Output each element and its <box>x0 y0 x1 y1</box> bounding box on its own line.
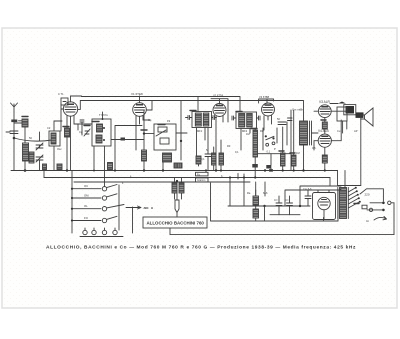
power transformer T5 <box>340 188 347 219</box>
value mark det <box>251 128 257 130</box>
svg-text:OL: OL <box>84 204 88 208</box>
svg-text:C2: C2 <box>47 126 51 130</box>
coil L4 <box>29 152 34 163</box>
switch bottom contacts <box>83 230 87 234</box>
wire T2 down <box>241 129 250 151</box>
capacitor T1 right <box>212 116 217 120</box>
node bus dots <box>66 169 68 171</box>
switch row 1 <box>72 188 101 190</box>
label marks <box>145 207 148 209</box>
svg-text:Cg: Cg <box>79 130 83 134</box>
capacitor C10 <box>276 196 282 215</box>
tube V4 6TA6 <box>262 103 275 116</box>
wire T1 top feed <box>197 97 199 112</box>
capacitor C14 <box>121 138 126 141</box>
mains wire 2 <box>367 209 382 211</box>
svg-text:AP: AP <box>354 129 358 133</box>
svg-text:6+6: 6+6 <box>263 191 268 195</box>
model label box <box>143 217 207 228</box>
wire T3 <box>304 101 319 171</box>
capacitor Ca <box>6 131 18 134</box>
wire bottom rail <box>170 228 394 235</box>
wire V2 pins <box>136 116 150 150</box>
fuse F1 <box>362 205 367 209</box>
tube V3 6TA7 <box>213 104 226 117</box>
wire osc verticals <box>144 101 187 171</box>
dial lamp LP <box>175 200 179 213</box>
wire pot verticals <box>263 128 277 171</box>
mains switch <box>374 217 387 221</box>
divider resistor R15 <box>253 196 259 205</box>
wire L5 down to bus <box>53 146 55 171</box>
resistor R4 <box>174 163 182 168</box>
wire box bottom to switch <box>104 146 106 187</box>
wire V1 plate up <box>61 104 64 131</box>
resistor R14 below bus <box>179 183 184 193</box>
node L6b tap <box>103 139 105 141</box>
oscillator coil box L5 <box>49 131 60 146</box>
resistor R7 <box>219 153 224 165</box>
value mark Rk <box>321 119 326 121</box>
tube V2 6D6 <box>133 103 147 117</box>
mains terminal 1 <box>388 201 391 204</box>
variable capacitor CV2 <box>36 155 43 162</box>
capacitor C2 <box>78 120 84 135</box>
capacitor C13 <box>205 154 211 171</box>
core lines T3 <box>310 121 312 145</box>
svg-text:Ra: Ra <box>247 191 251 195</box>
mains wire 1 <box>370 202 382 204</box>
speaker SP <box>365 108 374 126</box>
wire mid bottom h2 <box>211 183 339 221</box>
node osc <box>143 132 145 134</box>
capacitor Cb3 on bus <box>108 163 113 170</box>
switch arrow to a <box>126 206 141 209</box>
wire top rail 1 <box>70 96 72 102</box>
bus 2 <box>44 177 330 179</box>
wire grid tube2 <box>147 109 153 111</box>
transformer taps <box>348 188 360 209</box>
svg-text:Cp: Cp <box>148 118 152 122</box>
value mark L6 <box>92 121 99 123</box>
svg-text:T M Po: T M Po <box>99 113 108 117</box>
svg-text:0,1: 0,1 <box>201 157 205 161</box>
phono input box 2 <box>196 178 209 182</box>
resistor R18 osc grid <box>142 150 147 161</box>
svg-text:V1 6TE8: V1 6TE8 <box>131 92 143 96</box>
svg-text:MF2: MF2 <box>242 129 248 133</box>
rectifier tube V7 <box>318 197 330 209</box>
value mark padder <box>158 124 165 126</box>
resistor R13 below bus <box>172 183 177 193</box>
value mark R1 <box>63 126 69 128</box>
svg-text:Gramm: Gramm <box>197 179 205 182</box>
tube V1 6A7 <box>63 102 77 116</box>
wire top rail 2 <box>78 101 304 111</box>
value mark T2 <box>236 111 242 113</box>
svg-text:0,5: 0,5 <box>312 146 316 150</box>
tube V6 output <box>318 134 331 147</box>
antenna A <box>11 103 18 112</box>
wire grid cap V1 <box>71 96 241 112</box>
output coupling box <box>337 107 347 121</box>
node antenna junction <box>13 137 16 140</box>
wire L3 down <box>24 161 26 171</box>
svg-text:V3 ALR: V3 ALR <box>319 100 331 104</box>
svg-text:V3 6TB8: V3 6TB8 <box>259 95 270 99</box>
wire to C1 <box>14 122 22 124</box>
arrow plate top <box>338 102 346 104</box>
value mark osc <box>141 129 147 131</box>
resistor R6 <box>212 153 217 165</box>
wire antenna to coils <box>14 138 52 141</box>
value mark R9 <box>279 150 284 152</box>
wire coilbox down <box>93 146 95 171</box>
voice coil <box>356 112 364 118</box>
svg-text:C T1: C T1 <box>58 92 64 96</box>
resistor R10 <box>292 155 297 166</box>
wire V6 <box>314 120 341 155</box>
ground bus main <box>11 170 338 172</box>
wire switch bottom <box>80 236 123 238</box>
output transformer T4 <box>344 105 356 115</box>
svg-text:0,1: 0,1 <box>235 150 239 154</box>
svg-text:ALLOCCHIO, BACCHINI e Co — M: ALLOCCHIO, BACCHINI e Co — Mod 760 M 760… <box>46 245 356 251</box>
svg-text:P: P <box>274 147 276 151</box>
wire L2 down <box>24 127 26 143</box>
wire right of box <box>115 126 142 171</box>
capacitor C12 <box>305 190 311 206</box>
coil L2 <box>22 119 28 127</box>
wire speaker down <box>360 119 362 186</box>
tube V5 41 output <box>318 105 331 118</box>
capacitor C11 <box>287 196 293 215</box>
value mark R16 <box>354 203 359 205</box>
bus 3 <box>74 181 250 183</box>
svg-text:Cm mtBr: Cm mtBr <box>292 108 303 112</box>
cathode resistor R11 <box>322 122 327 129</box>
coil L7 <box>163 153 172 162</box>
contact c1 <box>266 143 269 146</box>
antenna coil L1 <box>11 120 17 123</box>
phono input box 1 <box>196 172 209 176</box>
capacitor T1 left <box>186 116 193 120</box>
capacitor T2 right <box>257 116 261 120</box>
variable capacitor CV1 <box>36 143 43 150</box>
switch arm AVC <box>266 136 274 140</box>
wire bus right corner <box>338 171 361 186</box>
value mark R10 <box>290 152 295 154</box>
svg-text:0,1: 0,1 <box>267 150 271 154</box>
cathode resistor R12 <box>322 155 327 163</box>
svg-text:OM: OM <box>84 194 89 198</box>
resistor R9 <box>281 153 286 166</box>
svg-text:Cm 6-6: Cm 6-6 <box>303 187 312 191</box>
label noise group <box>29 118 369 223</box>
switch row 2 <box>72 197 101 199</box>
wire top power <box>285 190 341 206</box>
coil L3 input winding <box>23 143 29 161</box>
IF transformer T2 <box>236 112 257 129</box>
wire terminal drop <box>391 203 394 235</box>
contact c2 <box>272 142 275 145</box>
svg-text:Cu: Cu <box>337 129 341 133</box>
wire bottom connects <box>324 190 339 221</box>
wire box top <box>102 112 104 119</box>
volume pot P1 <box>253 130 258 157</box>
RF coil box <box>92 119 111 146</box>
trimmer arrow <box>156 130 166 136</box>
node dots bus extra <box>71 169 326 221</box>
node L3 bus <box>24 169 27 172</box>
switch row 4 <box>72 220 101 222</box>
svg-text:V4 ALB: V4 ALB <box>318 129 329 133</box>
wire V2 top cap <box>139 96 141 103</box>
band switch S1 left rail <box>71 171 73 233</box>
svg-text:ALLOCCHIO BACCHINI 760: ALLOCCHIO BACCHINI 760 <box>147 221 205 226</box>
svg-text:R3: R3 <box>227 144 231 148</box>
node L6a tap <box>103 127 105 129</box>
capacitor C9 <box>278 122 286 125</box>
oscillator assembly box <box>154 124 176 150</box>
wire mid vertical <box>238 174 244 207</box>
selector wire <box>360 189 383 201</box>
wire V4 pins <box>264 116 272 131</box>
grid-cap resistor box V1 <box>61 98 68 105</box>
svg-text:OC: OC <box>84 184 88 188</box>
power rectifier box <box>313 193 336 220</box>
wire AF line <box>258 153 291 155</box>
capacitor Cb2 on bus <box>57 164 62 170</box>
value mark C3 <box>84 125 90 127</box>
wire CV to bus <box>39 132 41 171</box>
svg-text:C=: C= <box>274 198 278 202</box>
wire V4 top bracket <box>259 99 274 103</box>
wire V5 <box>314 111 350 122</box>
AF choke T3 <box>300 121 308 145</box>
wire antenna lead <box>13 112 15 171</box>
svg-text:1M: 1M <box>296 151 300 155</box>
capacitor C8b blob <box>266 165 271 169</box>
svg-text:Pd: Pd <box>167 119 171 123</box>
wire T1 down <box>197 128 209 167</box>
wire L5 top <box>54 121 62 131</box>
mains terminal 2 <box>369 208 372 211</box>
value mark L2 <box>22 116 28 118</box>
svg-text:Int: Int <box>366 219 369 223</box>
switch bracket right <box>119 185 133 233</box>
wire V3 top bracket <box>211 99 228 122</box>
padder C5 <box>160 138 169 144</box>
wire power caps <box>285 186 341 206</box>
wire mid bottom h1 <box>228 205 310 207</box>
wire rect pins <box>318 190 329 220</box>
wire verticals mid <box>230 178 265 207</box>
svg-text:MF1: MF1 <box>197 129 203 133</box>
svg-text:220: 220 <box>365 193 370 197</box>
resistor R5 <box>196 156 201 164</box>
svg-text:Osc: Osc <box>57 147 62 151</box>
svg-text:V2 6TD6: V2 6TD6 <box>213 94 224 98</box>
wire V3 pins <box>216 116 223 171</box>
value mark T1 <box>190 110 196 112</box>
coil L6b <box>96 135 102 143</box>
wire power drop <box>344 171 346 188</box>
capacitor T2 left <box>232 116 236 120</box>
IF transformer T1 <box>192 112 212 128</box>
padder C4 <box>158 127 167 132</box>
wire right verticals <box>287 110 291 171</box>
capacitor Cb1 on bus <box>43 164 47 170</box>
wire V1 pins <box>67 116 92 171</box>
coil L6a <box>97 124 103 132</box>
switch row 3 <box>72 208 101 210</box>
svg-text:C=: C= <box>285 198 289 202</box>
trimmer C3 <box>84 129 90 136</box>
resistor R1 <box>65 128 70 137</box>
capacitor C8 blob <box>252 164 257 168</box>
